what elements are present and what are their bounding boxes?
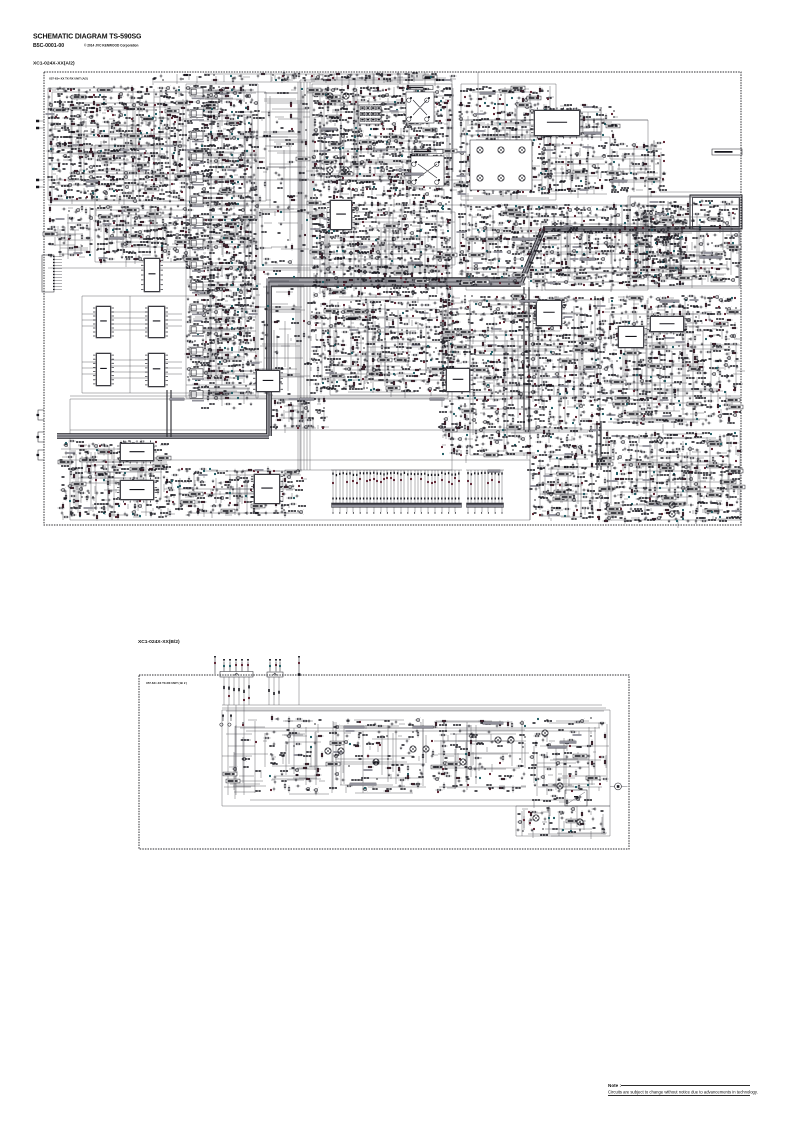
inner unit boundary (B) — [222, 705, 610, 836]
logic/analog IC515 — [141, 258, 163, 292]
cluster: B driver stage 3 — [431, 720, 530, 793]
logic/analog IC503 — [93, 353, 114, 386]
connector CN3 (left edge brackets lower) — [36, 120, 62, 460]
connector boxes on top edge of frame B — [214, 656, 300, 795]
section name plates — [86, 92, 742, 472]
frame: sheet A outer dashed border — [44, 72, 741, 525]
cluster: B input low-pass section — [222, 720, 271, 799]
frame: sheet B outer dashed border — [139, 675, 629, 849]
toroid transformers T601 T602 — [657, 437, 675, 517]
bus: vertical feeders to bottom connectors — [167, 287, 601, 470]
cluster: carrier unit section — [540, 142, 618, 198]
logic/analog IC511 — [117, 477, 157, 502]
cluster: B final stage — [528, 717, 609, 808]
cluster: band relay column dense fill — [184, 84, 265, 401]
digital IC group boundary — [82, 296, 216, 393]
logic/analog IC510 — [117, 440, 157, 463]
cluster: mid band below bus right — [597, 295, 746, 433]
svg-text:© 2014 JVC KENWOOD Corporation: © 2014 JVC KENWOOD Corporation — [84, 44, 138, 48]
cluster: carrier unit upper — [540, 104, 620, 141]
logic/analog IC509 — [443, 368, 473, 392]
cluster: central section below bus — [310, 298, 462, 399]
bus: wide mid segment interior — [266, 278, 523, 285]
cluster: central mixer filter section upper — [307, 84, 457, 208]
section plates (B) — [344, 722, 576, 785]
cluster: B driver stage 2 — [326, 718, 426, 794]
svg-text:Note :: Note : — [608, 1083, 621, 1088]
logic/analog IC502 — [145, 306, 168, 338]
logic/analog IC506 — [533, 300, 565, 326]
svg-text:X57-63×-XX TX-RX UNIT ( B: X57-63×-XX TX-RX UNIT ( B/ 2 ) — [146, 681, 187, 685]
section boundary rectangles (unit sub-frames) — [48, 72, 741, 520]
relay K1 — [565, 790, 587, 806]
svg-text:Circuits are subject to change: Circuits are subject to change without n… — [608, 1090, 758, 1095]
section box around right cluster — [630, 197, 739, 286]
bus: right-side loop box (dark double border) — [690, 195, 742, 229]
cluster: B bottom-right antenna switch — [516, 806, 607, 839]
cluster: right boxed cluster — [630, 200, 741, 288]
crystal filter XF2 — [411, 150, 444, 190]
svg-text:XC1-024X-XX(B/2): XC1-024X-XX(B/2) — [138, 639, 180, 645]
cluster: band-pass filter select section — [94, 204, 191, 268]
transformers T1-T8 (driver/final) — [325, 730, 583, 825]
cluster: mid band above bus — [456, 203, 689, 293]
cluster: B driver stage 1 — [269, 715, 329, 796]
cluster: RX antenna switch section — [46, 85, 193, 205]
logic/analog IC512 — [251, 474, 283, 504]
bus: center line — [57, 229, 740, 436]
logic/analog IC505 — [327, 200, 355, 230]
relay grid block RL1 — [359, 105, 381, 124]
cluster: top edge label row — [153, 71, 457, 86]
cluster: mid band below bus left — [438, 294, 607, 463]
cluster: gap strip between columns — [257, 86, 313, 297]
antenna jack J1 — [610, 783, 628, 790]
cluster: left low section — [43, 205, 94, 260]
logic/analog IC508 — [253, 370, 283, 392]
cluster: bottom right power section — [599, 431, 745, 529]
svg-text:X57-63×-XX TX-RX UNIT (A/2): X57-63×-XX TX-RX UNIT (A/2) — [49, 77, 88, 81]
bus: main inter-unit signal bus (gray interior) — [57, 229, 740, 436]
svg-text:B5C-0001-00: B5C-0001-00 — [33, 43, 64, 49]
svg-text:SCHEMATIC DIAGRAM TS-590SG: SCHEMATIC DIAGRAM TS-590SG — [33, 34, 142, 41]
logic/analog IC507 — [647, 313, 687, 334]
cluster: bottom left control section — [58, 440, 176, 521]
connector CN504 (flat cable, 38 pins) — [331, 470, 462, 514]
svg-text:XC1-024X-XX(A/2): XC1-024X-XX(A/2) — [33, 61, 75, 67]
cluster: IF filter section — [454, 86, 560, 201]
cluster: relay column lower strip — [259, 302, 316, 400]
logic/analog IC514 — [531, 107, 583, 138]
logic/analog IC501 — [93, 306, 114, 338]
bus: main inter-unit signal bus (dark rails) — [57, 229, 740, 436]
logic/analog IC513 — [615, 326, 647, 348]
cluster: bottom mid section — [527, 453, 605, 522]
relay/filter repeated column (band unit cells) — [188, 85, 256, 409]
bus: wide mid segment rails — [268, 277, 521, 287]
cluster: central mixer filter section lower — [307, 199, 457, 303]
logic/analog IC504 — [145, 353, 168, 387]
crystal filter XF1 — [406, 86, 434, 127]
connector CN505 (flat cable, 11 pins) — [466, 470, 504, 514]
cluster: right upper corner cluster — [607, 138, 667, 198]
roofing filter bank box — [327, 93, 532, 190]
cluster: bottom center control section — [167, 467, 308, 519]
cluster: below-bus small cluster — [270, 397, 329, 434]
cluster: upper mid connectors row — [260, 72, 451, 89]
